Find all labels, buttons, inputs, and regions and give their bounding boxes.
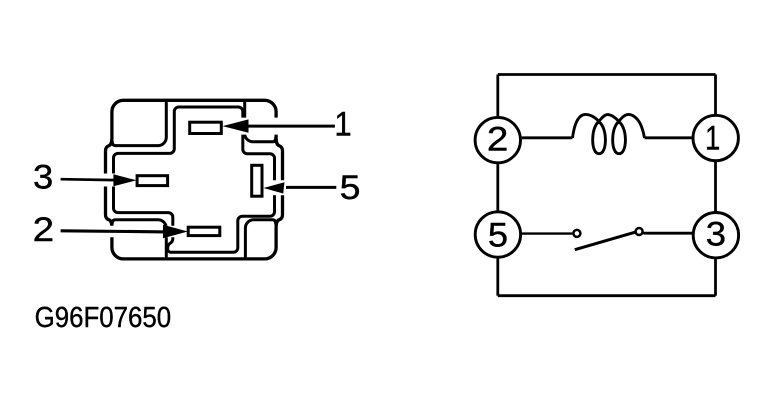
relay connector outer case outline bbox=[106, 100, 283, 259]
arrow to pin 2 bbox=[61, 225, 188, 238]
relay coil L bbox=[573, 114, 645, 153]
wire switch right lead bbox=[643, 232, 693, 235]
wire coil right lead bbox=[645, 136, 694, 139]
cavity plus-shaped inner contour bbox=[114, 107, 275, 252]
pin 5 slot bbox=[252, 165, 262, 196]
arrow to pin 3 bbox=[61, 174, 137, 186]
svg-text:2: 2 bbox=[487, 121, 509, 159]
switch blade bbox=[575, 231, 640, 250]
wire right middle bbox=[714, 162, 717, 212]
svg-text:3: 3 bbox=[33, 159, 53, 197]
svg-text:3: 3 bbox=[706, 215, 726, 253]
terminal circle 1 bbox=[693, 115, 738, 160]
schematic box bbox=[498, 75, 716, 296]
corner pocket top-right bbox=[245, 103, 276, 142]
wire switch left lead bbox=[521, 232, 572, 234]
wire bottom edge bbox=[498, 294, 716, 297]
wire right upper bbox=[714, 75, 717, 115]
corner pocket bottom-left bbox=[112, 220, 166, 257]
arrow to pin 1 bbox=[223, 119, 335, 132]
corner pocket top-left bbox=[112, 103, 166, 146]
svg-text:1: 1 bbox=[334, 106, 351, 144]
pin 1 slot bbox=[190, 122, 222, 133]
terminal circle 5 bbox=[475, 212, 520, 257]
pin 3 slot bbox=[137, 176, 168, 186]
svg-text:5: 5 bbox=[340, 169, 361, 207]
terminal circle 2 bbox=[475, 117, 520, 162]
svg-text:1: 1 bbox=[705, 120, 720, 158]
svg-text:G96F07650: G96F07650 bbox=[35, 302, 172, 334]
svg-text:2: 2 bbox=[33, 211, 54, 249]
switch contact right bbox=[636, 228, 643, 235]
white halo under arrows (breaks crossing lines) bbox=[98, 126, 336, 231]
arrow to pin 5 bbox=[264, 182, 337, 193]
corner pocket bottom-right bbox=[245, 220, 275, 257]
pin 2 slot bbox=[188, 227, 220, 235]
wire top edge bbox=[498, 73, 716, 76]
switch contact left bbox=[573, 230, 580, 237]
wire left middle bbox=[496, 164, 499, 211]
wire coil left lead bbox=[522, 136, 573, 139]
wire left lower bbox=[496, 258, 499, 296]
wire right lower bbox=[714, 259, 717, 296]
wire left upper bbox=[496, 75, 499, 117]
svg-text:5: 5 bbox=[488, 217, 508, 255]
terminal circle 3 bbox=[693, 213, 738, 258]
